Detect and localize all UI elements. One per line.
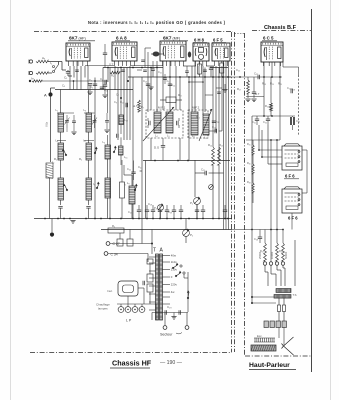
wire (282, 230, 284, 244)
wire (252, 296, 274, 298)
svg-text:C₃₂: C₃₂ (263, 120, 267, 124)
junction (150, 67, 152, 69)
coil L3 (86, 113, 92, 132)
wire bundle (223, 61, 225, 230)
wire (173, 313, 175, 317)
svg-text:6 H 8: 6 H 8 (194, 38, 205, 43)
svg-text:R₂: R₂ (79, 157, 82, 161)
wire (107, 68, 109, 83)
svg-text:C₉: C₉ (114, 100, 117, 104)
wire (258, 125, 260, 150)
capacitor C32 (266, 119, 270, 121)
junction (151, 243, 153, 245)
variable cap tuning 1 (65, 121, 69, 123)
capacitor C16 (131, 172, 135, 174)
wire (147, 254, 149, 263)
resistor R13 (220, 63, 224, 73)
capacitor C20 (215, 129, 217, 133)
svg-text:L₉: L₉ (127, 181, 130, 185)
svg-text:I₅: I₅ (124, 182, 126, 186)
wire (156, 61, 158, 112)
svg-text:6 F 6: 6 F 6 (288, 216, 298, 221)
svg-text:R₂₁: R₂₁ (265, 104, 269, 108)
capacitor on bus (195, 210, 199, 212)
wire (140, 170, 142, 172)
svg-text:A: A (44, 93, 47, 98)
wire (291, 213, 293, 230)
svg-text:R₂₃: R₂₃ (260, 250, 264, 253)
svg-text:50000: 50000 (284, 251, 288, 259)
wire (67, 70, 69, 72)
wire (160, 99, 166, 101)
capacitor C11 (163, 78, 167, 79)
wire (199, 61, 201, 64)
capacitor CT2 (86, 207, 90, 209)
MF2 coil a (191, 112, 198, 135)
wire (278, 298, 280, 305)
capacitor C1 (66, 72, 70, 74)
junction (218, 218, 220, 220)
svg-text:C₁₉: C₁₉ (148, 202, 152, 206)
resistor R23 (264, 243, 267, 261)
MF1 trim cap left (149, 121, 151, 125)
wire (191, 66, 193, 112)
wire bus BF ht (246, 96, 264, 98)
wire bus BF3 (232, 229, 283, 231)
wire (69, 66, 71, 90)
tube 6A8 pin wires (114, 61, 116, 66)
wire bus (55, 89, 133, 91)
junction (132, 218, 134, 220)
capacitor on bus (151, 210, 155, 212)
resistor R21 (270, 103, 273, 111)
trimmer Tm (212, 121, 216, 123)
wire (88, 90, 90, 114)
wire (57, 112, 74, 114)
capacitor C12 (100, 87, 104, 89)
svg-text:R₁₇: R₁₇ (237, 87, 241, 91)
junction (73, 80, 75, 82)
capacitor C38 (258, 237, 262, 239)
wire (162, 61, 164, 110)
junction (180, 218, 182, 220)
wire (252, 140, 254, 145)
TA left tap (149, 301, 156, 303)
junction (94, 218, 96, 220)
TA left tap (149, 293, 156, 295)
resistor R5 box (108, 228, 124, 233)
output transformer winding 1 (276, 289, 291, 293)
chassis BF bottom border (245, 355, 311, 357)
wire link (189, 81, 203, 83)
capacitor Cg1 (88, 84, 92, 86)
coil L5b (86, 178, 92, 200)
svg-text:C₁₃: C₁₃ (143, 79, 147, 83)
wire (94, 78, 96, 219)
tube 6C5 pin wires (263, 62, 265, 66)
trimmer cap (203, 70, 207, 71)
wire (151, 313, 153, 321)
label 6A8 underline (115, 40, 130, 42)
wire (80, 66, 82, 90)
capacitor C23 (258, 75, 260, 79)
svg-text:R₁₉: R₁₉ (270, 82, 274, 86)
resistor R15 (218, 147, 221, 165)
wire (253, 77, 255, 92)
wire (194, 61, 196, 112)
TA left tap (149, 270, 156, 272)
wire (221, 61, 223, 63)
svg-text:C 34: C 34 (111, 253, 118, 257)
wire (141, 77, 143, 205)
junction (100, 218, 102, 220)
wire (123, 68, 125, 141)
coil L5 (86, 143, 92, 160)
junction (63, 218, 65, 220)
chassis BF right border (311, 9, 313, 372)
dial lamp box (118, 281, 138, 296)
capacitor C17 (126, 103, 128, 107)
junction (120, 67, 122, 69)
capacitor C4 (105, 80, 107, 84)
feedback dashed wire (298, 75, 300, 135)
svg-text:L₆: L₆ (103, 140, 106, 144)
capacitor C2 (93, 84, 97, 86)
tube 6K7 MF pin wires (162, 61, 164, 66)
svg-text:C₃₉: C₃₉ (168, 210, 172, 214)
resistor R17 (247, 80, 250, 94)
wire (50, 88, 52, 93)
wire (60, 90, 62, 114)
electrolytic C36 (291, 117, 294, 125)
wire (218, 68, 220, 161)
svg-text:(HF): (HF) (79, 37, 86, 41)
svg-text:220v: 220v (171, 283, 178, 287)
svg-text:R₇: R₇ (141, 105, 144, 109)
resistor R25 (252, 145, 254, 155)
label 6F5 underline (212, 42, 226, 44)
wire (278, 328, 280, 339)
tube 6F5 pin wires (214, 61, 216, 66)
wire (267, 125, 269, 164)
svg-text:C₅: C₅ (89, 78, 92, 82)
wire (150, 68, 152, 111)
wire (114, 66, 116, 90)
capacitor small c (185, 71, 189, 72)
wire (270, 265, 272, 274)
junction (166, 218, 168, 220)
svg-text:I₁: I₁ (50, 61, 52, 65)
svg-text:C₃₁: C₃₁ (252, 120, 256, 124)
resistor R1 box (46, 163, 53, 178)
svg-text:C₃₆: C₃₆ (296, 119, 300, 123)
svg-text:H.T: H.T (255, 92, 260, 96)
svg-text:C₁₇: C₁₇ (120, 100, 124, 104)
tube 6F5 (212, 43, 230, 61)
wire (188, 77, 190, 160)
junction (270, 139, 272, 141)
chassis HF bottom border (30, 352, 232, 354)
resistor tap box3 (147, 284, 153, 292)
wire (251, 116, 253, 303)
MF1 trim cap right (177, 121, 179, 125)
TA right tap (163, 284, 171, 286)
TA right tap (163, 269, 171, 271)
padding trimmer (153, 52, 160, 57)
label 6K7 HF underline (68, 40, 95, 42)
terminal C27 (106, 242, 110, 246)
svg-text:D.S: D.S (154, 146, 159, 150)
junction (258, 149, 260, 151)
svg-text:R₂₈: R₂₈ (247, 181, 251, 184)
junction (188, 218, 190, 220)
TA left tap (149, 277, 156, 279)
junction (251, 229, 253, 231)
junction (132, 67, 134, 69)
wire (150, 138, 152, 161)
wire bus (143, 160, 230, 162)
wire (151, 53, 153, 55)
switch I1 (53, 65, 59, 73)
svg-text:R₂₆: R₂₆ (247, 162, 251, 165)
coil L1 (58, 113, 64, 132)
wire (107, 90, 109, 114)
heater lamp circle (139, 307, 145, 313)
capacitor Cg2 (103, 85, 107, 87)
label 6F6 no1 underline (284, 178, 299, 180)
selector contact (180, 265, 182, 267)
junction (179, 76, 181, 78)
diode node N (209, 185, 214, 190)
capacitor small (217, 92, 221, 93)
tube 6H8 pin wires (195, 61, 197, 66)
wire (129, 66, 131, 140)
wire (121, 160, 123, 182)
coil L6 (105, 145, 111, 159)
svg-text:6 F 5: 6 F 5 (213, 38, 223, 43)
junction (202, 218, 204, 220)
junction (196, 218, 198, 220)
MF2 tuning arrow (199, 109, 212, 141)
wire (127, 296, 129, 304)
wire (259, 230, 261, 238)
trimmer cap (75, 70, 79, 71)
svg-text:6K7: 6K7 (163, 36, 172, 41)
variable cap tuning 2 (93, 121, 97, 123)
wire (169, 61, 171, 112)
wire (179, 77, 181, 110)
wire (195, 172, 205, 174)
wire (132, 77, 134, 219)
wire (110, 243, 152, 245)
wire (215, 66, 217, 132)
junction (120, 97, 122, 99)
wire (155, 304, 157, 320)
trimmer cap tm2 (141, 60, 145, 61)
resistor R26 (252, 164, 254, 174)
trimmer cap (151, 69, 155, 70)
wire (246, 139, 280, 141)
wire (162, 138, 164, 146)
svg-text:Cad.: Cad. (107, 289, 113, 293)
wire (48, 61, 52, 63)
wire (276, 140, 278, 243)
capacitor on bus (223, 210, 227, 212)
svg-text:C₃: C₃ (62, 84, 65, 88)
svg-text:6 A 8: 6 A 8 (116, 36, 127, 41)
wire (108, 253, 148, 255)
resistor R1 hatch (46, 165, 53, 167)
field coil turns (254, 338, 256, 342)
selector switch b (175, 271, 181, 277)
wire (270, 230, 272, 262)
page edge rule left (10, 0, 12, 400)
wire (49, 178, 51, 219)
wire (144, 48, 146, 68)
wire (152, 312, 188, 314)
wire (278, 312, 280, 322)
svg-text:C₁₁: C₁₁ (167, 79, 171, 83)
junction (227, 218, 229, 220)
junction (218, 76, 220, 78)
capacitor on bus (158, 210, 162, 212)
svg-text:Haut-Parleur: Haut-Parleur (249, 362, 290, 369)
wire (196, 205, 198, 219)
wire (141, 205, 143, 244)
wire (124, 174, 132, 176)
heater bus wire (117, 303, 156, 305)
ground (245, 99, 250, 102)
tube 6F6 no1 (282, 144, 302, 170)
resistor R25 (282, 243, 285, 261)
transformer TA primary (156, 254, 159, 320)
wire (73, 81, 75, 90)
svg-text:T.S: T.S (293, 293, 297, 297)
wire (120, 68, 122, 99)
svg-text:C₁: C₁ (64, 76, 67, 80)
wire (147, 52, 149, 77)
wire (283, 66, 299, 68)
svg-text:H.T: H.T (133, 104, 138, 108)
junction (204, 76, 206, 78)
speaker cone (282, 337, 294, 355)
junction (156, 67, 158, 69)
svg-text:Chassis HF: Chassis HF (112, 359, 152, 368)
TA left tap (149, 256, 156, 258)
svg-text:L₁₆: L₁₆ (124, 155, 127, 159)
capacitor on bus (179, 210, 183, 212)
wire link (205, 94, 213, 96)
capacitor C29b (179, 310, 181, 314)
dial lamp inner (123, 285, 134, 293)
junction (212, 218, 214, 220)
wire (84, 66, 86, 78)
terminal dot (29, 80, 31, 82)
MF2 can outline (188, 110, 208, 138)
wire (263, 77, 265, 116)
tube 6K7 HF (66, 43, 90, 61)
svg-text:R₁₂: R₁₂ (196, 115, 200, 119)
svg-text:Nota : inverseurs I₁ I₂ I₃ I₄: Nota : inverseurs I₁ I₂ I₃ I₄ I₅ positio… (88, 20, 226, 25)
capacitor C18 (209, 68, 213, 70)
svg-text:6 F 6: 6 F 6 (285, 174, 295, 179)
capacitor to gnd 3 (105, 121, 109, 123)
terminal T arrow (51, 234, 54, 237)
svg-text:C₂₈: C₂₈ (291, 87, 295, 91)
wire (294, 240, 296, 286)
wire (73, 66, 75, 78)
trimmer component (188, 52, 191, 58)
svg-text:R₁₅: R₁₅ (219, 143, 223, 147)
resistor R7 (138, 100, 141, 112)
coil L10 (119, 115, 124, 125)
chassis HF top border (34, 31, 233, 33)
wire (212, 165, 214, 219)
ground (102, 95, 107, 98)
capacitor on bus (165, 210, 169, 212)
coil L6b (105, 178, 111, 198)
svg-text:C₃₈: C₃₈ (254, 237, 258, 241)
junction (159, 218, 161, 220)
wire (264, 230, 266, 244)
coil L16 (119, 146, 124, 155)
coil antenna A3 (36, 60, 48, 63)
svg-text:P₂: P₂ (154, 206, 157, 210)
svg-text:Chassis B.F: Chassis B.F (264, 25, 297, 31)
svg-text:R₁₀: R₁₀ (178, 93, 182, 97)
wire bus BF (229, 76, 283, 78)
wire (147, 77, 149, 112)
junction (138, 218, 140, 220)
wire (163, 296, 170, 298)
tube 6K7 HF pin wires (68, 61, 70, 66)
wire (160, 211, 162, 219)
svg-text:L P: L P (126, 319, 132, 323)
wire (131, 65, 163, 67)
svg-text:C₇: C₇ (116, 93, 119, 97)
terminal In (29, 71, 33, 75)
terminal BF2 (269, 262, 272, 265)
svg-text:R₃: R₃ (111, 74, 114, 78)
wire link (216, 87, 222, 89)
junction (109, 218, 111, 220)
ground (171, 317, 176, 320)
resistor R14 (212, 147, 215, 165)
capacitor CF (143, 281, 145, 285)
label 6K7 MF underline (162, 40, 188, 42)
capacitor CT1 (58, 207, 62, 209)
coil L9 (129, 186, 135, 204)
wire (102, 68, 104, 90)
junction (57, 218, 59, 220)
svg-text:R₁: R₁ (54, 157, 57, 161)
wire (204, 68, 206, 113)
junction (152, 218, 154, 220)
svg-text:lampes: lampes (98, 307, 108, 311)
terminal secteur 1 (163, 326, 167, 330)
svg-text:C₂₃: C₂₃ (254, 72, 258, 76)
tube 6K7 MF (160, 41, 186, 61)
resistor tap box2 (147, 274, 153, 282)
label Chassis HF underline (110, 367, 150, 369)
potentiometer P2 (183, 229, 190, 236)
wire (175, 66, 177, 110)
junction (107, 67, 109, 69)
wire (198, 66, 200, 75)
wire bus (210, 67, 228, 69)
wire (282, 265, 284, 268)
chassis HF right border line 1 (231, 32, 233, 352)
